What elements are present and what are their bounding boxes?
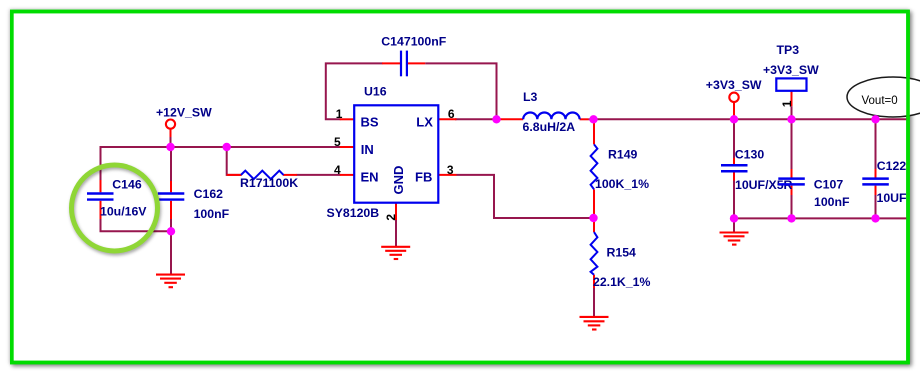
svg-text:FB: FB xyxy=(415,170,432,185)
svg-text:C122: C122 xyxy=(877,159,907,173)
capacitor C162 xyxy=(158,181,230,221)
svg-text:R154: R154 xyxy=(607,246,637,260)
wire C107 vertical bottom xyxy=(791,186,793,219)
wire ground stub under C130 xyxy=(733,218,735,232)
svg-text:1: 1 xyxy=(780,100,794,107)
wire L3 to rail xyxy=(588,118,593,120)
wire U16 GND pin to ground xyxy=(395,203,397,247)
wire R171 branch xyxy=(227,147,242,175)
pin 1 BS stub xyxy=(340,118,355,120)
wire ground rail bottom right xyxy=(734,217,907,219)
wire C122 vertical top xyxy=(875,119,877,177)
svg-text:5: 5 xyxy=(334,135,341,149)
wire C122 vertical bottom xyxy=(875,186,877,219)
svg-text:U16: U16 xyxy=(364,85,387,99)
svg-text:+3V3_SW: +3V3_SW xyxy=(706,78,762,92)
power symbol +12V_SW xyxy=(156,105,212,128)
svg-text:C130: C130 xyxy=(735,148,765,162)
svg-text:+12V_SW: +12V_SW xyxy=(156,105,212,119)
svg-text:10u/16V: 10u/16V xyxy=(100,205,147,219)
node junction dots xyxy=(166,115,879,235)
svg-text:L3: L3 xyxy=(523,90,538,104)
resistor R149 xyxy=(591,144,649,191)
wire C162 vertical bottom to ground xyxy=(170,219,172,274)
pin number 3 xyxy=(447,163,454,177)
wire main output rail xyxy=(594,118,907,120)
wire C146 bottom link xyxy=(101,219,172,231)
wire C107 vertical top xyxy=(791,119,793,177)
wire C162 vertical top xyxy=(170,147,172,181)
svg-text:C146: C146 xyxy=(112,177,142,191)
wire C130 vertical top xyxy=(733,119,735,164)
svg-text:TP3: TP3 xyxy=(777,43,800,57)
svg-text:6: 6 xyxy=(448,107,455,121)
ground under U16 xyxy=(381,247,410,259)
wire R154 top lead xyxy=(593,218,595,232)
test point TP3 xyxy=(763,43,819,91)
svg-text:C147100nF: C147100nF xyxy=(381,35,446,49)
svg-text:C107: C107 xyxy=(814,177,844,191)
wire TP3 to rail xyxy=(791,91,793,119)
wire BS loop left xyxy=(326,63,383,119)
wire R149 top red lead xyxy=(593,119,595,144)
svg-text:BS: BS xyxy=(361,115,379,130)
wire IN rail from C146 corner to U16 pin5 xyxy=(101,147,341,180)
svg-text:LX: LX xyxy=(416,115,433,130)
svg-text:IN: IN xyxy=(361,142,374,157)
capacitor C130 xyxy=(721,148,793,192)
pin 6 LX stub xyxy=(438,118,457,120)
svg-text:10UF: 10UF xyxy=(877,191,908,205)
svg-text:GND: GND xyxy=(391,166,406,195)
resistor R171 xyxy=(227,171,299,191)
pin 4 EN stub xyxy=(340,174,355,176)
wire R171 to EN xyxy=(297,174,341,176)
svg-text:SY8120B: SY8120B xyxy=(327,206,380,220)
capacitor C107 xyxy=(778,177,850,209)
pin number 1 TP3 xyxy=(780,100,794,107)
power symbol +3V3_SW xyxy=(706,78,762,102)
svg-text:6.8uH/2A: 6.8uH/2A xyxy=(523,120,576,134)
resistor R154 xyxy=(591,232,651,289)
svg-text:100nF: 100nF xyxy=(814,195,850,209)
ground under R154 xyxy=(580,317,609,330)
wire +12V to rail xyxy=(170,129,172,147)
svg-text:100nF: 100nF xyxy=(194,207,230,221)
svg-text:R149: R149 xyxy=(608,148,638,162)
svg-text:Vout=0: Vout=0 xyxy=(862,95,898,107)
pin number 1 xyxy=(336,107,343,121)
capacitor C146 xyxy=(87,177,147,219)
wire FB loop xyxy=(457,175,594,218)
svg-text:3: 3 xyxy=(447,163,454,177)
svg-text:1: 1 xyxy=(336,107,343,121)
capacitor C147 xyxy=(381,35,446,77)
svg-text:100K_1%: 100K_1% xyxy=(595,177,649,191)
pin number 4 xyxy=(334,163,341,177)
pin 3 FB stub xyxy=(438,174,457,176)
wire LX to L3 xyxy=(455,118,500,120)
svg-text:2: 2 xyxy=(384,214,398,221)
svg-text:C162: C162 xyxy=(194,187,224,201)
wire R149 bottom lead xyxy=(593,189,595,218)
svg-text:+3V3_SW: +3V3_SW xyxy=(763,63,819,77)
pin 5 IN stub xyxy=(340,146,355,148)
svg-text:R171100K: R171100K xyxy=(240,176,298,190)
pin number 5 xyxy=(334,135,341,149)
inductor L3 xyxy=(499,90,589,134)
wire C130 vertical bottom xyxy=(733,172,735,218)
ground under C130 xyxy=(720,233,749,245)
wire +3V3 circle to rail xyxy=(733,102,735,119)
capacitor C122 xyxy=(862,159,907,205)
pin number 2 xyxy=(384,214,398,221)
svg-text:22.1K_1%: 22.1K_1% xyxy=(593,275,650,289)
highlight circle around C146 xyxy=(72,165,158,251)
wire R154 bottom to ground xyxy=(593,275,595,316)
pin number 6 xyxy=(448,107,455,121)
svg-text:4: 4 xyxy=(334,163,341,177)
output net name ellipse Vout xyxy=(847,77,920,117)
ground under C162 xyxy=(156,275,185,288)
svg-text:EN: EN xyxy=(361,170,379,185)
wire BS loop right xyxy=(425,63,496,119)
op-amp U16 SY8120B xyxy=(327,85,439,220)
